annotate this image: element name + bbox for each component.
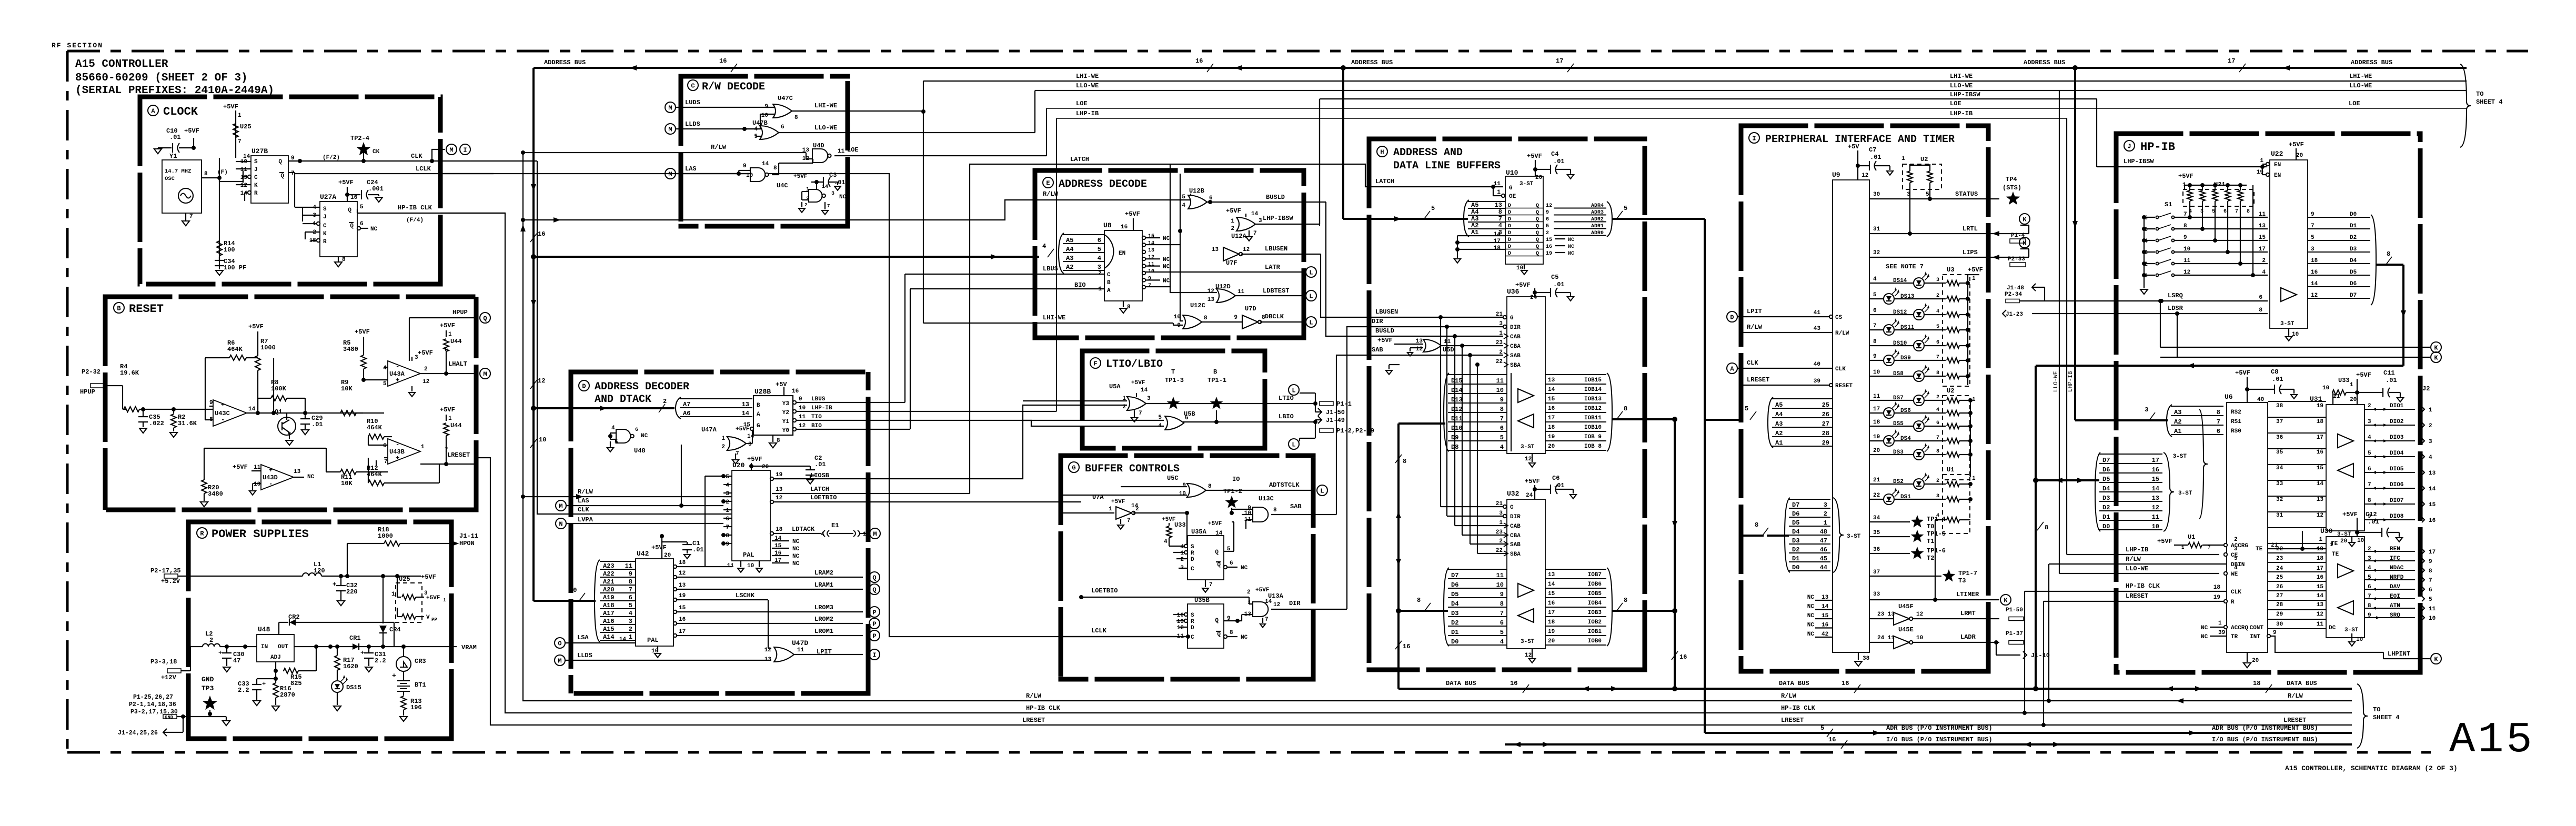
svg-text:14: 14 (2429, 486, 2436, 492)
svg-text:NC: NC (2201, 634, 2208, 640)
svg-text:NC: NC (1163, 278, 1170, 284)
svg-text:4: 4 (1500, 638, 1504, 646)
svg-text:6: 6 (2429, 587, 2432, 593)
svg-text:+5VF: +5VF (1377, 337, 1393, 344)
svg-text:20: 20 (2350, 397, 2357, 403)
svg-text:LHP-IBSW: LHP-IBSW (2124, 158, 2154, 165)
svg-text:19: 19 (1546, 251, 1552, 257)
svg-text:D2: D2 (1792, 546, 1799, 553)
svg-text:K: K (2022, 216, 2027, 224)
svg-text:D7: D7 (2350, 293, 2357, 299)
svg-text:15: 15 (2259, 235, 2266, 241)
svg-text:14: 14 (1251, 211, 1259, 217)
U31 buffers (2338, 434, 2353, 448)
svg-text:30: 30 (2276, 621, 2283, 628)
svg-text:464K: 464K (367, 424, 383, 431)
svg-text:A15 CONTROLLER: A15 CONTROLLER (75, 58, 168, 70)
svg-text:F: F (1093, 360, 1097, 368)
wire LHP-IB riser (1056, 118, 1057, 411)
svg-text:18: 18 (2317, 556, 2324, 562)
svg-text:D6: D6 (2102, 466, 2110, 474)
svg-text:18: 18 (776, 527, 783, 533)
svg-text:14: 14 (1822, 604, 1829, 610)
svg-text:LHP-IBSW: LHP-IBSW (1263, 215, 1293, 222)
svg-text:U5D: U5D (1443, 346, 1454, 354)
svg-text:I: I (872, 652, 876, 659)
svg-text:U4D: U4D (813, 142, 824, 149)
svg-text:DS13: DS13 (1900, 294, 1915, 300)
svg-text:1620: 1620 (343, 663, 358, 670)
svg-text:12: 12 (1207, 288, 1214, 295)
svg-text:HP-IB CLK: HP-IB CLK (1026, 704, 1061, 712)
svg-text:5: 5 (1873, 292, 1877, 298)
svg-text:I: I (1752, 135, 1756, 143)
svg-text:BUFFER CONTROLS: BUFFER CONTROLS (1085, 463, 1180, 475)
svg-text:LTIO/LBIO: LTIO/LBIO (1106, 358, 1163, 370)
svg-text:17: 17 (1873, 406, 1880, 412)
svg-text:SHEET 4: SHEET 4 (2476, 98, 2502, 106)
svg-text:3: 3 (1499, 510, 1503, 517)
svg-text:V: V (426, 615, 430, 621)
address bus junction dots (1341, 65, 1346, 70)
LLO-WE top line (1035, 90, 2467, 91)
svg-text:M: M (873, 531, 877, 538)
svg-text:10: 10 (539, 436, 546, 444)
address bus branch into D block A23-A14 (534, 600, 596, 602)
connector L P1-1 J1-50 (1289, 385, 1299, 395)
svg-text:10: 10 (2152, 523, 2159, 530)
svg-text:Q: Q (280, 173, 284, 179)
svg-text:PAL: PAL (647, 637, 659, 644)
svg-text:U9: U9 (1832, 171, 1840, 179)
svg-text:A6: A6 (683, 410, 690, 417)
svg-text:39: 39 (2218, 630, 2225, 636)
svg-text:12: 12 (1416, 346, 1423, 352)
svg-text:LHP-IB: LHP-IB (1076, 110, 1099, 117)
svg-text:2: 2 (2368, 403, 2371, 409)
svg-text:47: 47 (1820, 537, 1827, 545)
svg-text:U4C: U4C (777, 182, 788, 189)
svg-text:8: 8 (1624, 597, 1627, 604)
wire LHI-WE riser (923, 81, 924, 323)
svg-text:11: 11 (625, 562, 632, 570)
svg-text:9: 9 (2429, 559, 2432, 565)
U25 dashed resistor pack (395, 574, 399, 578)
svg-text:8: 8 (726, 533, 729, 539)
svg-text:+5VF: +5VF (1515, 281, 1531, 289)
svg-text:+5VF: +5VF (1525, 478, 1540, 485)
svg-text:OE: OE (1509, 194, 1516, 200)
svg-text:14: 14 (747, 434, 754, 440)
svg-text:13: 13 (1212, 247, 1219, 253)
svg-text:6: 6 (2217, 428, 2220, 435)
svg-text:LAS: LAS (685, 165, 697, 173)
svg-text:J: J (323, 214, 327, 220)
U6-U31 ladder (2268, 401, 2326, 402)
svg-text:D2: D2 (2350, 235, 2357, 241)
svg-text:S: S (323, 206, 327, 213)
wire LLO-WE out (779, 132, 1035, 133)
svg-text:28: 28 (2276, 602, 2283, 608)
svg-text:8: 8 (2247, 209, 2250, 215)
svg-text:23 13: 23 13 (1877, 611, 1895, 618)
block F border (1080, 349, 1267, 354)
svg-text:L: L (1292, 441, 1295, 449)
svg-text:C: C (691, 83, 695, 90)
svg-text:D15: D15 (1451, 377, 1463, 385)
svg-text:C: C (1191, 566, 1194, 572)
wire input (122, 386, 123, 409)
HP-IB CLK trunk (440, 213, 2352, 713)
wire LHP-IBSW riser (1319, 99, 1320, 226)
svg-text:U12B: U12B (1189, 187, 1204, 195)
svg-text:LRAM2: LRAM2 (814, 569, 833, 577)
svg-text:34: 34 (2276, 465, 2283, 471)
wire SBA gnd stub (1388, 365, 1390, 369)
svg-text:IOB12: IOB12 (1584, 406, 1602, 412)
svg-text:AND DTACK: AND DTACK (595, 394, 651, 406)
svg-text:A16: A16 (603, 618, 615, 625)
R/LW branch to D block (523, 496, 731, 497)
svg-text:U47C: U47C (778, 95, 793, 102)
svg-text:Y2: Y2 (782, 410, 789, 416)
svg-text:LDSR: LDSR (2168, 305, 2183, 312)
svg-text:D5: D5 (2350, 269, 2357, 276)
svg-text:15: 15 (1148, 234, 1154, 239)
svg-text:DS3: DS3 (1893, 449, 1904, 456)
svg-text:TO: TO (2373, 706, 2380, 713)
svg-text:D0: D0 (2102, 523, 2110, 530)
svg-text:+: + (396, 455, 399, 462)
svg-text:D: D (1191, 625, 1194, 631)
svg-text:U7A: U7A (1092, 493, 1104, 501)
svg-text:HPUP: HPUP (452, 309, 468, 316)
svg-text:7: 7 (827, 204, 830, 209)
svg-text:LATCH: LATCH (1375, 178, 1394, 185)
svg-text:U44: U44 (450, 338, 462, 345)
U6 D ladder (2099, 454, 2162, 455)
svg-text:A5: A5 (1066, 237, 1073, 244)
block C R/W DECODE border (679, 74, 850, 79)
svg-text:ADR BUS (P/O INSTRUMENT BUS): ADR BUS (P/O INSTRUMENT BUS) (1886, 724, 1993, 732)
connector M LUDS (665, 102, 676, 113)
svg-text:25: 25 (2276, 575, 2283, 581)
svg-text:11: 11 (2429, 606, 2436, 612)
svg-text:+5VF: +5VF (355, 328, 370, 336)
svg-text:R/W DECODE: R/W DECODE (702, 81, 765, 93)
svg-text:TP2-4: TP2-4 (350, 135, 369, 142)
svg-text:10: 10 (2356, 637, 2363, 643)
svg-text:3480: 3480 (343, 346, 358, 353)
svg-text:3: 3 (1824, 501, 1827, 509)
svg-text:RS0: RS0 (2231, 428, 2241, 435)
svg-text:C: C (323, 223, 327, 229)
svg-text:20: 20 (2296, 153, 2303, 159)
svg-text:SBA: SBA (1510, 362, 1521, 369)
gate U7D (1242, 315, 1258, 329)
svg-text:U5C: U5C (1167, 475, 1179, 482)
wire LHP-IBSW rise (1319, 99, 1320, 224)
svg-text:16: 16 (1679, 653, 1687, 661)
IOB bus low (1612, 610, 1675, 612)
gate U4C (750, 168, 765, 182)
svg-text:DIR: DIR (1372, 318, 1383, 325)
svg-text:1: 1 (1972, 397, 1976, 403)
svg-text:1: 1 (1497, 189, 1501, 196)
svg-text:DS6: DS6 (1900, 408, 1911, 414)
svg-text:PP: PP (431, 617, 437, 622)
svg-text:1000: 1000 (378, 532, 393, 540)
svg-text:P3-3,18: P3-3,18 (150, 658, 177, 666)
svg-text:R: R (1191, 550, 1194, 557)
svg-text:P1-37: P1-37 (2006, 631, 2023, 637)
svg-text:HPON: HPON (459, 540, 475, 547)
svg-text:2: 2 (629, 626, 632, 633)
svg-text:(F/2): (F/2) (323, 155, 340, 161)
svg-text:C: C (1107, 272, 1111, 278)
U36 buffer triangles (1518, 389, 1534, 402)
svg-text:OSC: OSC (165, 176, 175, 182)
svg-text:7: 7 (1139, 410, 1142, 417)
svg-text:11: 11 (797, 647, 804, 653)
svg-text:1: 1 (1901, 156, 1905, 162)
svg-text:8: 8 (1204, 315, 1207, 321)
svg-text:16: 16 (679, 617, 686, 623)
bus drop to U6 (2035, 366, 2037, 688)
svg-text:2: 2 (2429, 423, 2432, 429)
svg-text:NRFD: NRFD (2390, 575, 2404, 581)
svg-text:5: 5 (2368, 450, 2371, 457)
svg-text:15: 15 (1822, 613, 1829, 619)
svg-text:5: 5 (1745, 405, 1748, 412)
U32 buffer triangles (1518, 583, 1534, 597)
svg-text:7: 7 (238, 139, 241, 145)
svg-text:15: 15 (1546, 237, 1552, 243)
svg-text:13: 13 (1548, 572, 1555, 578)
svg-text:17: 17 (2152, 457, 2159, 464)
svg-text:CBA: CBA (1510, 344, 1521, 350)
svg-text:P: P (872, 621, 876, 628)
ADR bus out (1612, 218, 1705, 220)
svg-text:A2: A2 (1775, 430, 1783, 437)
svg-text:15: 15 (774, 543, 782, 549)
svg-text:NC: NC (792, 553, 800, 560)
svg-text:LHALT: LHALT (448, 360, 467, 368)
Y1 output pin 8 wire (202, 177, 219, 178)
svg-text:13: 13 (1207, 297, 1215, 303)
svg-text:CR1: CR1 (349, 634, 361, 642)
svg-text:A5: A5 (1775, 401, 1783, 409)
svg-text:17: 17 (1548, 610, 1555, 616)
svg-text:4: 4 (1182, 203, 1185, 209)
svg-text:J1-24,25,26: J1-24,25,26 (118, 730, 158, 737)
svg-text:12: 12 (1177, 625, 1184, 631)
capacitor C29 (303, 411, 307, 415)
svg-text:+5VF: +5VF (747, 456, 762, 463)
svg-text:D3: D3 (2350, 246, 2357, 253)
svg-text:16: 16 (1510, 680, 1517, 687)
svg-text:IOB6: IOB6 (1588, 581, 1602, 588)
block E title (1043, 177, 1053, 188)
svg-text:IOB11: IOB11 (1584, 415, 1602, 421)
svg-text:9: 9 (726, 541, 729, 548)
svg-text:NC: NC (1807, 595, 1815, 601)
svg-text:11: 11 (2317, 621, 2324, 628)
svg-text:3-ST: 3-ST (1521, 444, 1535, 450)
resistor R14 (217, 241, 222, 256)
svg-text:U27A: U27A (320, 193, 336, 201)
svg-text:19: 19 (679, 593, 686, 599)
U28B outputs (793, 401, 796, 404)
svg-text:P1-1: P1-1 (1336, 400, 1352, 408)
svg-text:41: 41 (1814, 310, 1821, 316)
address bus branch to D block A7 A6 (534, 407, 675, 409)
svg-text:IOB13: IOB13 (1584, 396, 1602, 402)
svg-text:8: 8 (1500, 600, 1504, 608)
svg-text:U35A: U35A (1191, 528, 1207, 536)
U9 A ladder (1750, 411, 1756, 420)
svg-text:P2-17,35: P2-17,35 (150, 567, 181, 575)
svg-text:7: 7 (1936, 435, 1939, 441)
svg-text:14: 14 (1548, 581, 1555, 588)
svg-text:1: 1 (1109, 506, 1112, 512)
svg-text:.01: .01 (311, 421, 323, 428)
svg-text:P2-1,14,18,36: P2-1,14,18,36 (129, 701, 176, 708)
svg-text:D1: D1 (1792, 555, 1799, 562)
svg-text:1000: 1000 (260, 344, 276, 351)
svg-text:+5VF: +5VF (1111, 499, 1125, 505)
svg-text:DIO4: DIO4 (2390, 450, 2404, 457)
svg-text:2: 2 (2262, 258, 2266, 264)
svg-text:11: 11 (1237, 289, 1245, 295)
svg-text:20: 20 (762, 464, 769, 470)
svg-text:LOETBIO: LOETBIO (810, 494, 837, 501)
U8 ground (1123, 301, 1124, 307)
svg-text:TO: TO (2476, 90, 2483, 98)
svg-text:LROM2: LROM2 (814, 616, 833, 623)
svg-text:3: 3 (748, 441, 752, 448)
svg-text:4: 4 (2429, 455, 2432, 461)
svg-text:29: 29 (2276, 611, 2283, 618)
svg-text:11: 11 (2183, 258, 2191, 264)
svg-text:DS1: DS1 (1900, 494, 1911, 500)
svg-text:3-ST: 3-ST (1521, 639, 1535, 645)
svg-text:LRMT: LRMT (1960, 610, 1976, 617)
svg-text:NC: NC (839, 194, 847, 200)
op-amp U43D (261, 465, 294, 490)
U9 ground (1858, 652, 1859, 660)
svg-text:1: 1 (448, 331, 452, 338)
svg-text:LSRQ: LSRQ (2168, 292, 2183, 299)
svg-text:9: 9 (2273, 630, 2277, 636)
block I title (1749, 133, 1759, 143)
svg-text:196: 196 (410, 704, 422, 711)
svg-text:L: L (1309, 293, 1313, 300)
svg-text:(F/4): (F/4) (406, 217, 424, 224)
wire LLO-WE drop to HP-IB block (2059, 90, 2060, 573)
svg-text:+5VF: +5VF (421, 573, 436, 581)
svg-text:17: 17 (2259, 246, 2266, 253)
svg-text:D4: D4 (2350, 258, 2357, 264)
wire LOE riser (1046, 108, 1047, 156)
svg-text:6: 6 (1098, 237, 1101, 244)
svg-text:D7: D7 (2102, 457, 2110, 464)
svg-text:13: 13 (294, 469, 301, 475)
svg-text:A2: A2 (1471, 222, 1478, 229)
wire U8 o1 to U12C (1145, 245, 1183, 321)
svg-text:10: 10 (1179, 491, 1186, 497)
svg-text:+5VF: +5VF (2356, 371, 2371, 379)
svg-text:20: 20 (1548, 638, 1555, 644)
svg-text:PERIPHERAL INTERFACE AND TIMER: PERIPHERAL INTERFACE AND TIMER (1765, 134, 1955, 146)
svg-text:18: 18 (2317, 419, 2324, 425)
svg-text:2: 2 (804, 203, 807, 208)
svg-text:+5VF: +5VF (440, 406, 455, 414)
svg-text:7: 7 (2208, 545, 2210, 550)
svg-text:ADDRESS BUS: ADDRESS BUS (2024, 59, 2065, 66)
svg-text:21: 21 (1496, 501, 1503, 507)
svg-text:-: - (396, 363, 399, 370)
svg-text:A3: A3 (1066, 255, 1073, 262)
diode CR4 (383, 576, 384, 623)
svg-text:LOE: LOE (1950, 100, 1961, 107)
svg-text:6: 6 (1873, 308, 1877, 314)
svg-text:9: 9 (1500, 591, 1504, 598)
svg-text:13: 13 (742, 401, 749, 408)
svg-text:I/O BUS (P/O INSTRUMENT BUS): I/O BUS (P/O INSTRUMENT BUS) (1886, 736, 1993, 743)
svg-text:D4: D4 (1792, 528, 1799, 536)
svg-text:IOB10: IOB10 (1584, 425, 1602, 431)
svg-text:TP1-2: TP1-2 (1223, 488, 1242, 495)
svg-text:3-ST: 3-ST (2344, 627, 2359, 633)
address bus branch to U8 decode (534, 256, 1039, 258)
svg-text:15: 15 (2317, 584, 2324, 590)
svg-text:+5VF: +5VF (793, 174, 807, 180)
wire LHPINT (2270, 636, 2383, 652)
svg-text:K: K (2434, 355, 2438, 362)
op-amp U43A (388, 361, 420, 386)
svg-text:.01: .01 (169, 134, 181, 141)
block A title (148, 105, 158, 116)
svg-text:14: 14 (2152, 485, 2159, 492)
ADDRESS BUS main line (534, 67, 2467, 69)
wire LRESET (420, 464, 476, 465)
svg-text:U22: U22 (2271, 150, 2283, 158)
svg-text:J: J (2127, 143, 2131, 150)
svg-text:5: 5 (1098, 246, 1101, 253)
svg-text:4: 4 (2368, 435, 2371, 441)
svg-text:24 11: 24 11 (1877, 635, 1895, 641)
svg-text:SEE NOTE 7: SEE NOTE 7 (1886, 263, 1924, 270)
svg-text:PAL: PAL (743, 551, 754, 559)
R14 ground (216, 270, 223, 275)
svg-text:D4: D4 (2102, 485, 2110, 492)
svg-text:1: 1 (1972, 476, 1976, 482)
svg-text:10: 10 (1873, 369, 1880, 376)
svg-text:J1-11: J1-11 (459, 532, 478, 540)
svg-text:4: 4 (1498, 222, 1502, 229)
svg-text:Q: Q (1217, 631, 1221, 638)
wire U8 o7 to U12D (1145, 287, 1217, 293)
svg-text:CLK: CLK (578, 506, 589, 513)
svg-text:2: 2 (806, 196, 809, 202)
svg-text:NC: NC (1163, 236, 1170, 242)
svg-text:3: 3 (2234, 546, 2238, 552)
svg-text:B: B (1213, 368, 1217, 376)
svg-text:100 PF: 100 PF (224, 264, 246, 271)
svg-text:NC: NC (1163, 264, 1170, 270)
svg-text:13: 13 (776, 487, 783, 493)
